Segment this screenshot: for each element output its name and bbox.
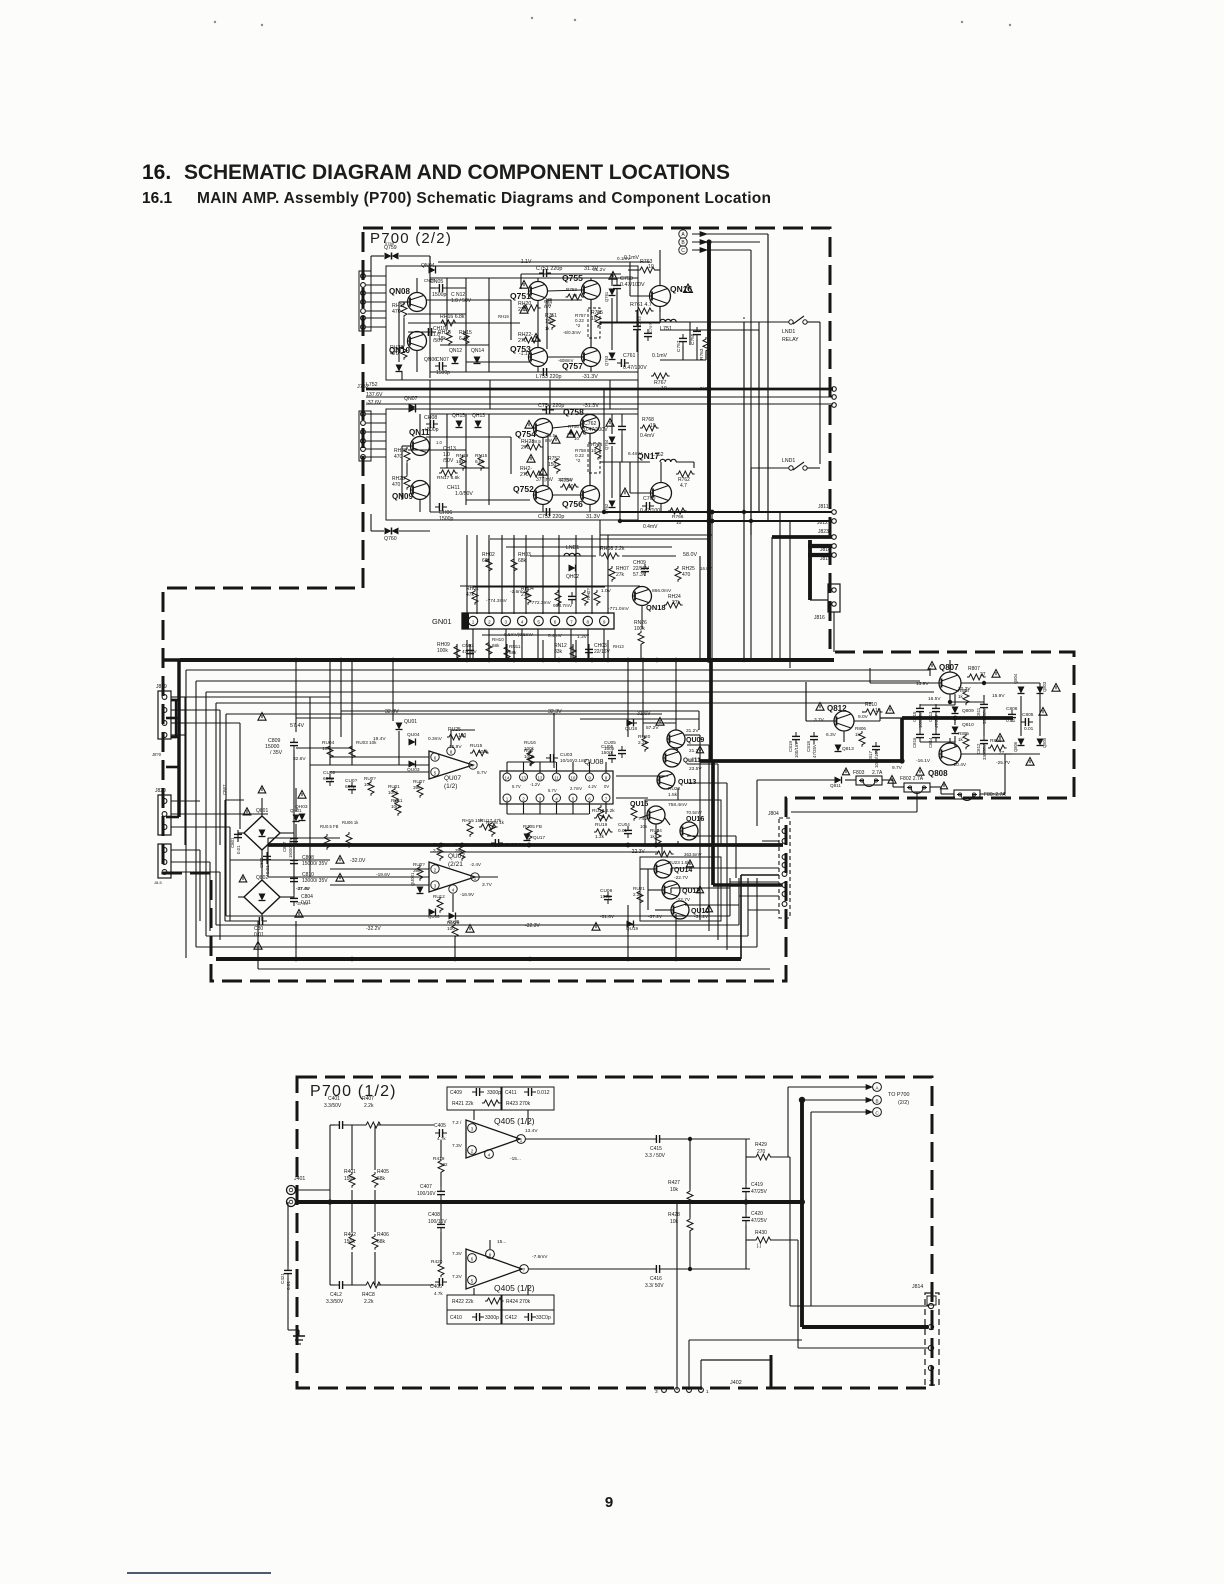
- wire cap rail h705: [920, 704, 955, 706]
- svg-text:R804: R804: [958, 688, 969, 693]
- svg-text:0.01: 0.01: [618, 828, 627, 833]
- svg-text:150k: 150k: [344, 1176, 355, 1182]
- svg-text:(1/2): (1/2): [444, 783, 457, 790]
- wire loop top 0: [186, 669, 930, 671]
- wire riser qu01: [398, 731, 400, 765]
- svg-text:-6/0.3mV: -6/0.3mV: [563, 330, 581, 335]
- wire C v: [810, 1112, 812, 1306]
- svg-text:5: 5: [537, 620, 540, 625]
- wire top row 539: [490, 538, 709, 540]
- svg-text:1: 1: [472, 620, 475, 625]
- wire j821 h1: [171, 849, 200, 851]
- warning triangle: [336, 874, 344, 882]
- resistor R420: [438, 1262, 444, 1278]
- wire fb top: [473, 1110, 475, 1120]
- svg-text:3/.2V: 3/.2V: [700, 386, 710, 391]
- wire J402 v1: [676, 1202, 678, 1390]
- svg-text:R807: R807: [968, 666, 980, 672]
- capacitor C761: [617, 359, 629, 367]
- resistor RH11: [504, 645, 510, 661]
- svg-text:0V: 0V: [604, 784, 609, 789]
- speck 3: [531, 17, 533, 19]
- wire q759 drop2: [429, 256, 431, 266]
- warning triangle: [656, 718, 664, 726]
- wire J402 v2: [688, 1340, 690, 1390]
- wire riser 341: [340, 660, 342, 737]
- svg-text:1.0: 1.0: [436, 440, 442, 445]
- resistor RU14: [459, 845, 465, 861]
- wire q809 col: [954, 694, 956, 705]
- pin J821: [162, 848, 167, 853]
- svg-text:33C0p: 33C0p: [536, 1315, 551, 1321]
- svg-text:R753: R753: [566, 287, 577, 292]
- svg-text:J823: J823: [818, 529, 829, 535]
- op-amp QU07 (2/2): [429, 862, 475, 892]
- wire c762 v: [621, 414, 623, 422]
- svg-text:150: 150: [548, 462, 557, 468]
- wire drop 4: [513, 535, 515, 614]
- connector GN01 strip body: [462, 613, 614, 629]
- wire riser 643: [642, 660, 644, 737]
- wire qu08 botrail: [507, 813, 589, 815]
- pin J804: [782, 829, 787, 834]
- svg-text:R756: R756: [591, 442, 603, 448]
- wire J819 t1: [171, 699, 176, 701]
- svg-text:Q807: Q807: [939, 663, 959, 672]
- warning triangle: [816, 703, 824, 711]
- connector J752 pin 3: [361, 430, 366, 435]
- diode Q764: [609, 501, 616, 508]
- speck 1: [214, 21, 216, 23]
- svg-text:100: 100: [447, 926, 455, 932]
- bus mid top thick: [180, 658, 834, 662]
- wire relay2 left: [751, 467, 789, 469]
- svg-text:CH08: CH08: [424, 415, 437, 421]
- svg-text:C807: C807: [282, 841, 287, 852]
- wire top row 547: [506, 546, 672, 548]
- wire loop left 1: [195, 681, 197, 947]
- connector J751 pin 5: [361, 309, 366, 314]
- bus right vert thick: [709, 660, 713, 761]
- resistor RU13: [631, 805, 637, 821]
- wire left col v2: [374, 1125, 376, 1170]
- transistor QU12: [662, 881, 680, 899]
- wire ch2 h500: [466, 499, 530, 501]
- svg-text:C752 220p: C752 220p: [538, 514, 564, 520]
- svg-text:Q813: Q813: [842, 746, 854, 752]
- svg-text:R405: R405: [377, 1169, 389, 1175]
- svg-text:C757: C757: [676, 340, 682, 352]
- svg-text:C411: C411: [505, 1090, 517, 1096]
- wire ch2 h468: [440, 467, 489, 469]
- svg-text:R761 4.7: R761 4.7: [630, 302, 652, 308]
- capacitor C416: [652, 1265, 664, 1273]
- wire r430 l: [746, 1239, 754, 1241]
- connector J819 body: [158, 691, 171, 739]
- svg-text:L752: L752: [652, 452, 664, 458]
- svg-text:15.9V: 15.9V: [992, 693, 1005, 699]
- svg-text:C415: C415: [650, 1146, 662, 1152]
- capacitor C758r: [633, 322, 641, 334]
- wire c757 d: [682, 346, 684, 360]
- wire J816 down: [833, 612, 835, 652]
- svg-text:10s: 10s: [640, 824, 648, 829]
- warning triangle: [298, 791, 306, 799]
- wire v759b: [758, 330, 760, 512]
- svg-text:CU03: CU03: [560, 752, 573, 758]
- wire interrail 1: [489, 380, 491, 409]
- wire QN17 drop: [599, 520, 601, 556]
- wire v210c: [209, 862, 211, 931]
- svg-text:32.3V: 32.3V: [385, 709, 399, 715]
- pin J804: [782, 892, 787, 897]
- wire v744: [743, 322, 745, 662]
- wire bundle right h764: [687, 763, 718, 765]
- wire qu15 e: [655, 824, 657, 845]
- pin J819: [162, 721, 167, 726]
- svg-text:7: 7: [570, 620, 573, 625]
- svg-text:100/16V: 100/16V: [417, 1191, 436, 1197]
- wire v744b: [743, 322, 745, 660]
- svg-text:MAIN AMP. Assembly (P700) Sche: MAIN AMP. Assembly (P700) Schematic Diag…: [197, 190, 771, 207]
- pin QU08 top pin 10: [569, 773, 577, 781]
- wire j819 h3: [171, 722, 240, 724]
- capacitor C756r: [644, 329, 652, 341]
- svg-text:RH15 15k: RH15 15k: [462, 818, 483, 823]
- svg-text:10: 10: [591, 316, 597, 322]
- pin J804: [782, 855, 787, 860]
- resistor R401: [349, 1172, 355, 1188]
- wire qn16 base left: [630, 295, 649, 297]
- wire drop 1: [476, 535, 478, 614]
- wire qu14 base: [640, 868, 654, 870]
- wire v238: [237, 830, 239, 842]
- wire v612: [611, 274, 613, 286]
- wire left mid2: [200, 813, 268, 815]
- wire row 587: [473, 586, 605, 588]
- resistor RU18: [594, 815, 613, 821]
- svg-text:Q803: Q803: [1042, 681, 1047, 692]
- fuse F801: [954, 790, 980, 799]
- wire loop top 2: [206, 691, 934, 693]
- wire bundle right h836: [687, 835, 736, 837]
- svg-text:470: 470: [390, 351, 399, 357]
- capacitor CU01: [348, 782, 356, 794]
- wire interrail 2: [549, 380, 551, 409]
- capacitor CH08: [426, 420, 438, 428]
- wire out box: [640, 857, 721, 921]
- wire gn strip drops: [472, 629, 474, 660]
- svg-text:150: 150: [545, 319, 554, 325]
- coil LND1: [564, 553, 580, 556]
- svg-text:L752: L752: [366, 382, 378, 388]
- svg-text:Q758: Q758: [563, 407, 584, 417]
- svg-text:/50V: /50V: [443, 458, 454, 464]
- resistor R756: [595, 444, 601, 460]
- svg-text:-608mV: -608mV: [558, 358, 573, 363]
- svg-text:-37.6V: -37.6V: [366, 400, 382, 406]
- connector GN01 pin 2: [485, 616, 494, 625]
- svg-text:4.7k: 4.7k: [437, 1136, 446, 1141]
- capacitor C813: [932, 704, 940, 716]
- pin QU08 top pin 14: [503, 773, 511, 781]
- wire v268: [267, 838, 269, 845]
- wire qn10 e: [416, 351, 418, 372]
- wire J402 h: [689, 1339, 802, 1341]
- svg-text:QN12: QN12: [449, 348, 462, 354]
- resistor RH04: [525, 589, 531, 605]
- bus left stub2: [166, 717, 179, 720]
- svg-text:680p: 680p: [323, 776, 334, 782]
- svg-text:RU26: RU26: [447, 920, 460, 926]
- svg-text:RELAY: RELAY: [782, 337, 799, 343]
- wire v230b: [229, 827, 231, 860]
- svg-text:Q405 (1/2): Q405 (1/2): [494, 1283, 535, 1293]
- svg-text:-32.2V: -32.2V: [366, 926, 381, 932]
- capacitor C814: [932, 730, 940, 742]
- wire loop bottom 3: [216, 924, 739, 926]
- resistor R402: [349, 1234, 355, 1250]
- wire v751b: [750, 468, 752, 660]
- resistor ru06 sym: [346, 832, 352, 848]
- resistor RH06: [582, 590, 588, 606]
- svg-text:2.2k: 2.2k: [633, 892, 642, 897]
- wire q755 e drop: [590, 300, 592, 348]
- svg-text:100k: 100k: [437, 648, 448, 654]
- wire ch2 bot rail: [430, 511, 638, 513]
- svg-text:R402: R402: [344, 1232, 356, 1238]
- bridge rectifier Q801: [244, 816, 280, 850]
- bus v902 thick: [900, 718, 904, 761]
- connector J804 body: [779, 818, 790, 918]
- wire ch1 v511: [510, 300, 512, 340]
- svg-text:R756: R756: [568, 424, 579, 429]
- svg-text:-7.6mV: -7.6mV: [532, 1254, 548, 1260]
- connector J814 body: [925, 1293, 939, 1385]
- wire rail 388 thick: [366, 388, 833, 391]
- svg-text:F802 2.7A: F802 2.7A: [900, 776, 924, 782]
- connector J752 pin 5: [361, 447, 366, 452]
- transistor Q755: [582, 281, 601, 300]
- channel 1 enclosure box: [386, 266, 638, 380]
- resistor R768t: [640, 425, 659, 431]
- transistor Q751: [529, 282, 548, 301]
- wire amp2 fb: [452, 894, 454, 912]
- diode QH02: [569, 565, 576, 572]
- junction Bv: [799, 1097, 805, 1103]
- diode QU03: [409, 761, 416, 768]
- svg-text:GN01: GN01: [432, 617, 452, 626]
- diode QU01: [396, 723, 403, 730]
- warning triangle: [705, 905, 712, 912]
- svg-text:-25.7V: -25.7V: [996, 760, 1011, 766]
- svg-text:Q751: Q751: [510, 291, 531, 301]
- junction rail 521: [710, 519, 715, 524]
- svg-text:Q808: Q808: [928, 769, 948, 778]
- resistor RH01: [472, 589, 478, 605]
- pin J811: [832, 510, 837, 515]
- svg-text:QU15: QU15: [630, 801, 648, 808]
- svg-text:-16.9V: -16.9V: [460, 892, 475, 898]
- transistor QU15: [647, 806, 665, 824]
- svg-text:R407: R407: [362, 1096, 374, 1102]
- wire feed top right1: [929, 668, 931, 676]
- pin J815: [832, 553, 837, 558]
- svg-text:C416: C416: [650, 1276, 662, 1282]
- svg-text:+22: +22: [440, 1162, 448, 1167]
- wire r763 v: [655, 269, 660, 271]
- resistor RU26: [452, 923, 458, 939]
- speck 2: [261, 24, 263, 26]
- capacitor CN05: [435, 284, 447, 292]
- coil L751: [660, 319, 676, 322]
- svg-text:RU16: RU16: [524, 740, 536, 745]
- svg-text:+500p: +500p: [424, 427, 439, 433]
- svg-text:1k: 1k: [958, 737, 964, 742]
- wire RH26 down: [699, 556, 701, 661]
- svg-text:-16.1V: -16.1V: [916, 758, 931, 764]
- wire qn17 b row: [619, 462, 621, 521]
- diode Q809: [952, 707, 959, 714]
- resistor R763: [638, 267, 657, 273]
- svg-text:-1.2V: -1.2V: [530, 782, 540, 787]
- wire ch2 lower: [552, 494, 581, 496]
- diode QU18: [627, 720, 634, 727]
- capacitor C753: [539, 368, 551, 376]
- svg-text:1500p: 1500p: [439, 516, 454, 522]
- resistor R406: [372, 1234, 378, 1250]
- resistor RU6: [527, 750, 533, 766]
- node B circled bottom: [873, 1096, 882, 1105]
- svg-text:2.7A: 2.7A: [872, 770, 883, 776]
- capacitor C755: [693, 327, 701, 339]
- resistor R804: [963, 690, 969, 706]
- wire ch2 v447b: [446, 414, 448, 468]
- svg-text:31.6V: 31.6V: [637, 711, 651, 717]
- warning triangle: [254, 942, 262, 950]
- wire gn mid drops: [456, 644, 458, 660]
- wire r429 l: [746, 1156, 754, 1158]
- svg-text:R429: R429: [755, 1142, 767, 1148]
- feedback box C410: [447, 1310, 501, 1324]
- connector J752 pin 6: [361, 455, 366, 460]
- pin J819: [162, 708, 167, 713]
- resistor RH17: [401, 302, 407, 318]
- wire v220c: [219, 872, 221, 940]
- svg-text:R421 22k: R421 22k: [452, 1101, 474, 1107]
- wire bundle right v709: [708, 745, 710, 931]
- wire ch2 out: [600, 461, 650, 463]
- connector GN01 pin 3: [501, 616, 510, 625]
- wire q807 top: [949, 660, 951, 672]
- feedback box R422: [447, 1295, 501, 1310]
- svg-text:RU06 1k: RU06 1k: [342, 820, 359, 825]
- warning triangle: [527, 455, 535, 463]
- resistor R807: [967, 674, 986, 680]
- svg-text:100k: 100k: [388, 790, 399, 795]
- wire left amp in: [330, 764, 429, 766]
- svg-text:L753 220p: L753 220p: [536, 374, 561, 380]
- svg-text:RH19: RH19: [498, 314, 509, 319]
- diode QH15: [456, 421, 463, 428]
- transistor QN08: [408, 293, 427, 312]
- svg-text:0759: 0759: [385, 241, 395, 246]
- svg-text:RU03 10k: RU03 10k: [356, 740, 377, 745]
- connector J401 pin2: [287, 1198, 296, 1207]
- svg-text:150k: 150k: [344, 1239, 355, 1245]
- wire drop 7: [558, 535, 560, 614]
- svg-text:Q811: Q811: [830, 783, 841, 788]
- wire j821 h3: [171, 871, 220, 873]
- warning triangle: [525, 421, 533, 429]
- resistor R407: [364, 1122, 383, 1128]
- svg-text:10k: 10k: [322, 746, 330, 752]
- capacitor C807: [290, 834, 298, 846]
- wire out box2: [645, 800, 721, 845]
- svg-text:7.2 /: 7.2 /: [452, 1120, 462, 1126]
- wire loop right 3: [738, 878, 740, 925]
- connector GN01 pin 1: [468, 616, 477, 625]
- svg-text:6-8k: 6-8k: [459, 336, 469, 342]
- junction r427: [688, 1137, 692, 1141]
- svg-text:9.7V: 9.7V: [892, 765, 903, 771]
- pin QU08 top pin 8: [602, 773, 610, 781]
- resistor RH09: [454, 644, 460, 660]
- wire d col v2: [1039, 683, 1041, 736]
- connector J821 body: [158, 844, 171, 878]
- wire bundle v736: [735, 836, 737, 878]
- capacitor C408: [437, 1220, 445, 1232]
- svg-text:470: 470: [392, 482, 401, 488]
- svg-text:10: 10: [568, 484, 574, 490]
- warning triangle: [539, 468, 547, 476]
- wire j820 h2: [171, 826, 230, 828]
- connector J752 pin 4: [361, 439, 366, 444]
- wire J816 left: [810, 599, 828, 601]
- svg-text:270: 270: [757, 1149, 766, 1155]
- wire left amp in2: [330, 876, 429, 878]
- junction c419: [743, 1199, 748, 1204]
- wire ch1 v447: [446, 278, 448, 330]
- svg-text:3: 3: [655, 1389, 658, 1395]
- diode QU05: [449, 913, 456, 920]
- svg-text:16.1: 16.1: [142, 190, 173, 207]
- diode D803: [1037, 687, 1044, 694]
- warning triangle: [888, 776, 896, 784]
- resistor RH03: [511, 557, 517, 573]
- svg-text:C801: C801: [230, 837, 235, 848]
- warning triangle: [532, 334, 540, 342]
- wire qu10 base: [655, 909, 671, 911]
- svg-text:10: 10: [650, 423, 656, 429]
- svg-text:953.7mV: 953.7mV: [553, 603, 573, 609]
- feedback box C412: [502, 1310, 554, 1324]
- resistor RU21: [637, 889, 643, 905]
- capacitor CH03: [585, 645, 593, 657]
- wire riser 352: [351, 660, 353, 745]
- svg-text:4.7k: 4.7k: [434, 1291, 443, 1296]
- wire q758 e drop: [589, 433, 591, 486]
- connector J751 pin 1: [361, 274, 366, 279]
- label 32.3V riser: [553, 713, 555, 716]
- wire qu emitters v: [670, 868, 672, 873]
- svg-text:RU05 FB: RU05 FB: [523, 824, 542, 829]
- wire r430 v: [797, 1240, 799, 1348]
- pin QU08 bottom pin 6: [586, 794, 594, 802]
- warning triangle: [940, 782, 947, 789]
- wire q752 drop: [542, 504, 544, 512]
- warning triangle: [886, 706, 894, 714]
